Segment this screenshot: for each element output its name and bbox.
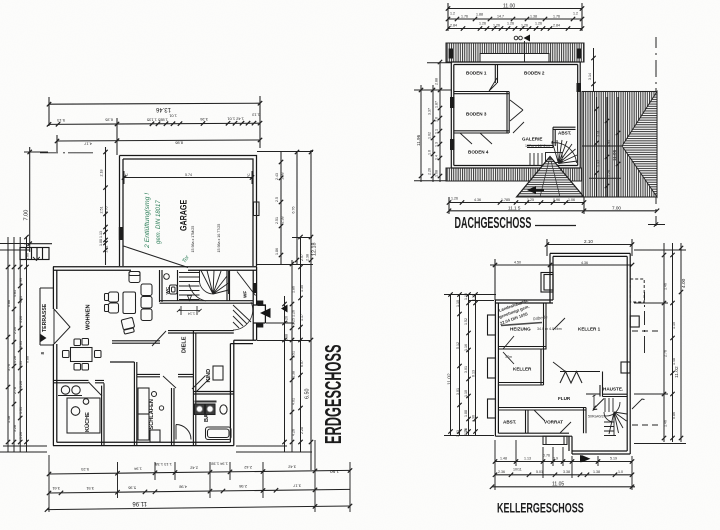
- wall flur/abst-vorrat: [498, 408, 586, 411]
- zigzag opening symbol: [560, 372, 582, 384]
- left outer wall: [53, 267, 56, 446]
- property dash-dot line left of garage: [40, 152, 93, 154]
- kind furniture: [213, 366, 223, 380]
- keller right dim labels: [664, 278, 688, 427]
- main stairs straight run treads: [179, 273, 200, 300]
- keller top dim line 2.10: [545, 239, 634, 256]
- garage door swing diagonal: [124, 246, 189, 268]
- right wall dashed window: [630, 279, 644, 302]
- left wall window box 2: [488, 358, 496, 378]
- boundary dash-dot left of column: [644, 292, 646, 353]
- left dim column labels: [7, 253, 30, 439]
- kitchen counters: [58, 386, 100, 433]
- keller bottom dim 1 labels: [500, 454, 617, 461]
- wall wohnen/diele: [112, 341, 160, 343]
- stair small dim 1.14: [177, 306, 202, 315]
- upper block top wall: [550, 253, 630, 256]
- keller1 left door diagonal: [553, 318, 566, 372]
- bad door swing: [176, 425, 191, 440]
- vorrat left wall: [526, 410, 529, 433]
- wall keller bottom: [498, 383, 543, 386]
- main top wall: [495, 300, 553, 303]
- wall schlafen left: [134, 362, 136, 445]
- wall between boden1 and boden2: [495, 65, 497, 84]
- bottom dim line 2 labels: [51, 483, 301, 491]
- entry steps small: [258, 306, 266, 324]
- tilted chair: [121, 317, 135, 329]
- dach dim line 3 labels: [450, 22, 560, 28]
- ERDGESCHOSS top dimension line 13.46: [49, 103, 260, 104]
- dach interior wall boden1/3: [454, 65, 576, 148]
- toilet: [220, 405, 227, 414]
- roof dim labels: [597, 130, 618, 177]
- keller stamp underline: [501, 323, 542, 326]
- bottom wall right part: [572, 451, 630, 454]
- terrace arrow marker: [41, 334, 47, 342]
- bottom outer wall: [53, 442, 234, 445]
- terrace outline: [40, 288, 53, 345]
- wall boden3/4: [454, 131, 509, 133]
- wall schlafen right / corridor: [172, 388, 175, 445]
- entrance arrow black: [260, 308, 271, 318]
- right wall dashes: [632, 331, 658, 425]
- step down wall: [569, 436, 572, 454]
- horizontal extensions 7.00 line: [24, 152, 52, 244]
- dach winder stairs fan: [551, 140, 578, 164]
- wall stairs/WF: [227, 270, 230, 301]
- keller bottom arrow: [580, 455, 591, 462]
- pyramid roof over stair bay: [517, 157, 585, 198]
- bottom dim line 3 with 11.96: [45, 504, 352, 512]
- labels second dim line: [56, 112, 260, 123]
- ERDGESCHOSS third dimension line: [57, 140, 260, 141]
- schlafen door swing: [163, 376, 176, 388]
- central vertical wall: [507, 92, 509, 134]
- keller bottom dim line 1: [493, 459, 634, 463]
- entrance jamb bottom: [257, 323, 264, 328]
- sofa cushions row: [105, 272, 153, 335]
- ticks garage left dims: [103, 150, 107, 252]
- wall keller1 bottom / flur top right: [560, 372, 600, 395]
- dach bottom dim labels: [451, 197, 575, 203]
- bathtub: [206, 427, 232, 440]
- extension verticals third dim: [57, 118, 117, 155]
- wohnen door swing: [152, 331, 166, 346]
- pyramid black arrow: [527, 186, 544, 194]
- dach bottom dim line 2: [447, 209, 659, 213]
- small dim flur: [593, 395, 596, 411]
- bath basins: [195, 402, 232, 440]
- wall top of KIND: [168, 331, 234, 333]
- keller bottom dim 2 labels: [498, 468, 623, 475]
- galerie/stair separator: [527, 145, 553, 147]
- wall WC/stairs: [177, 270, 179, 301]
- wall keller right: [541, 350, 544, 386]
- keller outer walls: [495, 253, 630, 454]
- center axis line below arrow: [524, 41, 526, 62]
- dach dim line 2: [446, 17, 584, 21]
- coffee table: [123, 292, 136, 314]
- dach left dim labels: [416, 78, 439, 177]
- keller bottom extension verticals: [495, 440, 632, 490]
- right roof top extension dim: [591, 48, 595, 92]
- left dim column lines: [0, 237, 47, 452]
- labels right of garage: [275, 173, 296, 256]
- dim ticks second line: [47, 121, 262, 127]
- keller right dim columns: [634, 243, 686, 444]
- vorrat right wall: [584, 408, 587, 434]
- dach left dim columns: [414, 60, 452, 182]
- dim ticks 13.46: [47, 101, 262, 106]
- exterior cellar stair ladder left: [20, 248, 49, 260]
- boundary dash-dot line right: [648, 37, 665, 227]
- wall kitchen right: [102, 383, 104, 445]
- garage right window niche: [254, 202, 260, 216]
- bottom dim line 1: [47, 468, 352, 476]
- right wall window box: [630, 316, 639, 327]
- garage door jamb dark: [119, 227, 124, 240]
- wall KIND/BAD: [193, 392, 233, 395]
- galerie landing box: [546, 153, 563, 163]
- dach house outer walls: [451, 62, 580, 168]
- keller left dim labels: [447, 293, 476, 437]
- lower stair to cellar: [233, 302, 253, 330]
- garage outer walls double line: [120, 156, 257, 267]
- right dim labels: [285, 243, 318, 437]
- entrance jamb top: [257, 301, 264, 306]
- left vertical dim line 7.00: [29, 147, 31, 252]
- garage interior dim line: [122, 171, 254, 184]
- right wall small box lower: [621, 362, 630, 373]
- left wall window box 3: [488, 399, 496, 418]
- ladder arrow: [33, 257, 40, 260]
- dach bottom dim line 1: [447, 197, 586, 214]
- heizung door diagonal: [503, 336, 514, 364]
- dach right wall window: [577, 83, 582, 92]
- bed: [138, 388, 160, 442]
- bottom wall left part: [495, 433, 572, 436]
- keller stair arrow: [593, 399, 604, 410]
- wall WC left: [160, 270, 163, 302]
- wall heizung bottom: [498, 347, 546, 350]
- dach dim line 2 labels: [450, 12, 578, 19]
- kitchen door swing: [89, 382, 103, 396]
- vorrat door diagonal: [534, 410, 571, 433]
- keller interior walls: [498, 303, 627, 433]
- house top wall / garage bottom wall: [53, 267, 265, 446]
- bottom dim extension verticals: [49, 440, 350, 512]
- balcony posts: [449, 49, 453, 59]
- wall schlafen top: [137, 374, 194, 376]
- right column black arrow: [281, 305, 288, 313]
- bottom dim line 1 labels: [80, 462, 339, 475]
- wc fixtures: [164, 274, 177, 294]
- dach left wall windows: [450, 97, 455, 108]
- right wall mid to step: [256, 323, 258, 340]
- wall kitchen top: [53, 380, 104, 382]
- keller dim line 2: [490, 259, 634, 303]
- keller stairs winder: [604, 398, 627, 436]
- balcony hatched strip: [446, 43, 584, 62]
- right roof hatched block: [582, 92, 657, 198]
- right dim column lines: [236, 237, 312, 452]
- upper left window box: [541, 273, 553, 293]
- entrance bay: [253, 305, 265, 340]
- dach bottom hatched strip: [446, 168, 582, 181]
- bottom dim line 2: [47, 488, 350, 496]
- wall diele/wohnen partial: [110, 361, 134, 363]
- stair start triangle: [188, 296, 192, 301]
- labels garage left dim: [99, 170, 109, 253]
- dach door swings: [460, 78, 524, 144]
- kind door swing: [192, 376, 210, 392]
- corner leader line: [632, 399, 645, 409]
- dim ticks third line: [55, 138, 262, 143]
- right outer wall upper: [253, 267, 256, 305]
- dining table: [63, 339, 102, 371]
- strip mid border: [480, 53, 549, 55]
- keller bottom dim line 3: [490, 485, 635, 489]
- keller bottom dim line 2: [493, 473, 634, 477]
- upper block left wall: [550, 253, 553, 303]
- exterior cellar light well: [543, 436, 567, 444]
- wf window mark: [253, 283, 257, 293]
- right dim column ticks: [282, 235, 313, 444]
- dash after label: [535, 225, 576, 227]
- left inner vertical dim line garage: [105, 147, 107, 265]
- wall below WC stairs WF: [160, 301, 254, 304]
- dach straight stair treads: [530, 153, 542, 166]
- dach dim line 3: [446, 26, 584, 30]
- left dim column ticks: [6, 235, 29, 444]
- extension verticals top dim: [49, 96, 260, 148]
- right of garage dim line: [257, 150, 313, 470]
- schlafen door knob: [159, 406, 163, 410]
- wall stairs top: [603, 394, 628, 396]
- left wall window box 1: [488, 315, 496, 335]
- wall left of KIND and BAD: [193, 331, 195, 445]
- entrance marker top: [514, 35, 530, 42]
- wall haustechnik left: [600, 372, 603, 397]
- interior walls: [53, 270, 253, 445]
- wf door diagonal: [237, 272, 256, 296]
- right outer wall: [627, 253, 630, 454]
- dach top dim line 11.00: [446, 3, 584, 31]
- right outer wall lower: [230, 340, 233, 445]
- ERDGESCHOSS second dimension line: [49, 123, 260, 124]
- wall heizung/keller1: [544, 303, 547, 350]
- roof vertical dim lines: [589, 97, 621, 197]
- left outer wall: [495, 300, 498, 436]
- abst box: [553, 127, 576, 147]
- terrace door double swing: [54, 309, 70, 344]
- step wall at y340: [230, 340, 256, 343]
- ticks 7.00 line: [28, 150, 32, 246]
- keller left dim columns: [444, 292, 496, 436]
- main stairs winder fan: [189, 271, 229, 302]
